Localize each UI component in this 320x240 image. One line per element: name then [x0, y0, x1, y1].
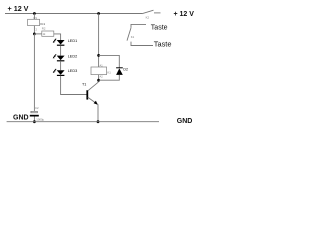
GND rail (bottom) — [7, 121, 159, 123]
svg-text:+ 12 V: + 12 V — [174, 11, 195, 18]
node diode top junction — [97, 54, 100, 57]
wire diode branch bottom — [99, 75, 120, 80]
wire rail to relay coil — [98, 14, 100, 68]
wire C2 to ground — [33, 117, 35, 122]
wire rail to R1 — [33, 14, 35, 20]
+12V rail (top) — [5, 13, 142, 15]
wire Taste top lead — [131, 24, 146, 27]
svg-text:A2: A2 — [100, 75, 104, 79]
node collector junction — [97, 79, 100, 82]
diode D2 — [116, 68, 123, 75]
svg-text:1000µ: 1000µ — [36, 117, 44, 121]
svg-text:C2: C2 — [35, 106, 39, 110]
node A junction — [33, 33, 36, 36]
capacitor C2 — [30, 111, 39, 116]
transistor T1 — [87, 80, 98, 105]
svg-text:K1: K1 — [107, 71, 111, 75]
wire LED1 to LED2 — [60, 46, 62, 56]
svg-text:LED1: LED1 — [68, 39, 78, 43]
switch contact K2 — [142, 10, 161, 14]
wire emitter to ground rail — [97, 104, 99, 121]
LED LED2 — [53, 54, 65, 61]
node C2 ground junction — [33, 120, 36, 123]
node rail junction relay branch — [97, 12, 100, 15]
svg-text:GND: GND — [13, 115, 29, 122]
LED LED3 — [53, 69, 65, 76]
wire LED2 to LED3 — [60, 61, 62, 70]
wire node A to C2 — [33, 34, 35, 111]
wire coil to collector node — [98, 75, 100, 81]
push-button K1 blade — [127, 28, 131, 41]
svg-text:+ 12 V: + 12 V — [8, 4, 29, 13]
wire diode branch top — [99, 55, 120, 67]
LED LED1 — [53, 39, 65, 46]
svg-text:T1: T1 — [82, 82, 86, 86]
resistor R1 — [28, 19, 40, 25]
svg-text:LED3: LED3 — [68, 69, 78, 73]
svg-text:D2: D2 — [123, 67, 128, 71]
svg-text:K1: K1 — [131, 35, 135, 39]
wire node A to R2 — [34, 33, 41, 35]
node: rail junction at R1 — [33, 12, 36, 15]
wire LED3 to base of T1 — [61, 76, 87, 95]
svg-text:K2: K2 — [146, 15, 150, 19]
svg-text:GND: GND — [177, 118, 193, 125]
wire Taste bottom lead — [131, 42, 153, 46]
wire R1 to node A — [33, 26, 35, 34]
svg-text:LED2: LED2 — [68, 54, 78, 58]
svg-text:Taste: Taste — [154, 40, 172, 49]
node emitter-ground junction — [97, 120, 100, 123]
relay coil K1 — [91, 67, 107, 75]
svg-text:Taste: Taste — [151, 24, 168, 31]
svg-text:R1: R1 — [34, 16, 38, 20]
svg-text:R2: R2 — [42, 26, 46, 30]
resistor R2 — [42, 31, 54, 36]
wire R2 to LED chain — [54, 34, 61, 40]
svg-text:IC1: IC1 — [40, 22, 45, 26]
